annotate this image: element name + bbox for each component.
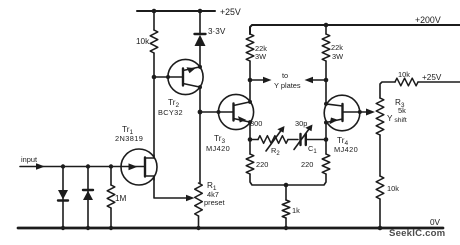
wire+arrow: left to-Y-plates pointer — [250, 77, 272, 83]
node: 1M/0V junction — [109, 226, 113, 230]
diode D2 (cathode up) — [83, 167, 93, 229]
resistor 10k (R3 top feed, horizontal) — [395, 70, 460, 86]
+200V supply rail (top right) — [250, 15, 460, 34]
wire: input line — [20, 166, 144, 168]
svg-text:Y plates: Y plates — [274, 81, 301, 90]
node: D2/0V junction — [86, 226, 90, 230]
node: junction dot Tr4 collector on +200V rail — [324, 23, 329, 28]
input arrowhead — [36, 163, 45, 170]
svg-text:3W: 3W — [255, 52, 266, 61]
svg-text:+25V: +25V — [220, 7, 241, 17]
node: Y-plate tap on Tr4 collector — [324, 78, 329, 83]
Tr3 base bar — [232, 104, 234, 121]
node: Tr2 base junction on drain line — [152, 75, 157, 80]
transistor Tr2 BCY32 body — [168, 59, 203, 94]
svg-text:22k: 22k — [331, 43, 343, 52]
svg-text:3W: 3W — [332, 52, 343, 61]
node: blob Tr4 emitter/circle edge — [324, 121, 328, 125]
Tr4 emitter lead (arrowhead mid-lead) — [326, 119, 343, 123]
node: blob at Tr3 circle edge on base lead — [217, 110, 221, 114]
node: blob Tr3 collector/circle edge — [248, 100, 252, 104]
diode D1 (cathode down) — [58, 167, 68, 229]
svg-text:2N3819: 2N3819 — [115, 134, 143, 143]
node: blob Tr2 collector/circle edge — [198, 85, 202, 89]
svg-text:MJ420: MJ420 — [206, 144, 230, 153]
zener diode 3.3V — [195, 11, 226, 67]
svg-text:+200V: +200V — [415, 15, 441, 25]
Tr4 base bar — [341, 104, 343, 121]
svg-text:10k: 10k — [136, 37, 150, 46]
Tr1 label — [115, 125, 143, 143]
node: junction dot zener line on +25V rail — [198, 9, 203, 14]
wire: Tr1 source to R1 wiper — [154, 176, 188, 198]
Tr4 collector lead — [326, 104, 343, 106]
svg-text:+25V: +25V — [422, 73, 442, 82]
Tr1 source lead — [145, 176, 154, 180]
node: blob Tr3 emitter/circle edge — [248, 120, 252, 124]
transistor Tr3 MJ420 body — [218, 94, 253, 129]
node: blob Tr4 base/circle edge — [358, 110, 362, 114]
node: tail junction — [284, 183, 289, 188]
Tr2 base bar — [182, 69, 184, 86]
Tr3 collector lead — [234, 102, 251, 106]
resistor 10k (bottom right) — [376, 176, 399, 228]
node: left end of coupling line — [248, 137, 253, 142]
svg-text:MJ420: MJ420 — [334, 145, 358, 154]
node: 1k/0V junction — [284, 226, 288, 230]
svg-text:input: input — [21, 155, 37, 164]
Tr2 label — [158, 98, 183, 117]
resistor 220 (Tr4 emitter) — [288, 123, 330, 186]
svg-text:to: to — [282, 71, 288, 80]
Tr2 collector lead — [183, 84, 200, 88]
resistor 1M — [107, 167, 126, 229]
R1 wiper arrowhead — [186, 195, 195, 201]
variable resistor R2 800 — [250, 119, 298, 157]
svg-text:3·3V: 3·3V — [208, 27, 226, 36]
Tr3 emitter lead (arrow out = NPN) — [234, 119, 251, 123]
node: R1/0V junction — [196, 226, 200, 230]
node: Tr2 collector / Tr3 base junction — [198, 110, 203, 115]
node: 10k/0V junction — [378, 226, 383, 231]
Tr3 label — [206, 134, 230, 153]
svg-text:BCY32: BCY32 — [158, 108, 183, 117]
resistor 22k 3W (Tr3 collector load) — [246, 34, 267, 102]
svg-text:10k: 10k — [387, 184, 399, 193]
R3 wiper arrowhead — [366, 109, 375, 116]
node: input/D1 junction — [61, 164, 65, 168]
svg-text:5k: 5k — [398, 106, 406, 115]
wire: Tr2 base lead — [154, 76, 183, 78]
node: input/1M junction — [109, 164, 113, 168]
label: to Y plates — [274, 71, 301, 90]
node: blob at Tr2 circle edge on base lead — [166, 75, 170, 79]
trimmer capacitor C1 30p — [294, 119, 326, 155]
wire: Tr4 base to R3 wiper — [343, 111, 369, 113]
svg-text:220: 220 — [256, 160, 268, 169]
Tr1 drain lead — [145, 155, 154, 158]
+25V supply rail (top left) — [137, 7, 241, 17]
node: blob Tr2 emitter/circle edge — [198, 65, 202, 69]
resistor 10k (Tr1 drain load) — [136, 11, 158, 158]
svg-text:0V: 0V — [430, 218, 441, 227]
node: right end of coupling line — [324, 137, 329, 142]
wire: junction to Tr3 base — [200, 111, 234, 113]
Tr1 channel bar — [144, 158, 146, 177]
svg-text:1M: 1M — [115, 194, 127, 203]
transistor Tr4 MJ420 body — [324, 95, 360, 131]
svg-text:1k: 1k — [292, 206, 300, 215]
node: Y-plate tap on Tr3 collector — [248, 78, 253, 83]
svg-text:preset: preset — [204, 198, 225, 207]
Tr4 label — [334, 136, 358, 154]
wire: Tr2 collector to Tr3 base junction — [199, 87, 201, 183]
0V rail (bottom) — [18, 218, 443, 228]
Tr2 emitter lead (arrow toward base = PNP) — [183, 67, 200, 71]
potentiometer R3 5k Y shift — [376, 98, 407, 176]
node: blob Tr4 collector/circle edge — [324, 102, 328, 106]
transistor Tr1 2N3819 JFET body — [121, 149, 157, 185]
Tr1 gate arrowhead — [129, 163, 138, 170]
node: junction dot 10k line on +25V rail — [152, 9, 157, 14]
wire: +25V right feed — [380, 82, 395, 98]
svg-text:30p: 30p — [295, 119, 307, 128]
wire: emitter coupling node line — [250, 122, 258, 139]
node: input/D2 junction — [86, 164, 90, 168]
resistor 22k 3W (Tr4 collector load) — [322, 25, 343, 104]
resistor 220 (Tr3 emitter) — [246, 140, 284, 186]
wire+arrow: right to-Y-plates pointer — [305, 77, 327, 83]
svg-text:SeekIC.com: SeekIC.com — [389, 228, 445, 239]
resistor 1k (tail) — [282, 185, 300, 228]
svg-text:10k: 10k — [398, 70, 410, 79]
svg-text:800: 800 — [250, 119, 262, 128]
node: D1/0V junction — [61, 226, 65, 230]
svg-text:220: 220 — [301, 160, 313, 169]
potentiometer R1 4k7 preset — [195, 181, 225, 228]
